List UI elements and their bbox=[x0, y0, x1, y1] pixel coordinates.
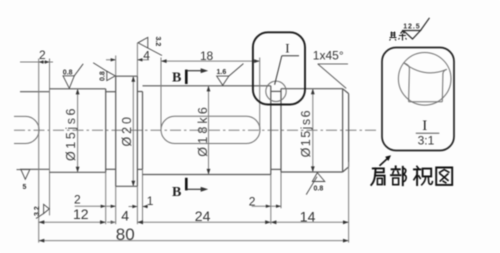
end face extension down bbox=[348, 162, 350, 243]
svg-text:12.5: 12.5 bbox=[403, 23, 420, 30]
flange bottom edge bbox=[116, 185, 138, 187]
svg-text:I: I bbox=[285, 40, 289, 55]
segment 3 bottom edge bbox=[281, 171, 343, 173]
svg-text:B: B bbox=[172, 185, 181, 200]
svg-text:Ø15js6: Ø15js6 bbox=[64, 108, 78, 161]
svg-text:4: 4 bbox=[121, 208, 129, 224]
roughness 0.8 rotated on flange left face bbox=[107, 71, 115, 80]
svg-text:1: 1 bbox=[147, 194, 154, 208]
dimension 2 (groove G4) row1 bbox=[252, 205, 281, 207]
extension below segment 1 right face bbox=[105, 172, 107, 224]
svg-text:80: 80 bbox=[116, 225, 135, 244]
groove G1 left edge + extension bbox=[38, 59, 40, 243]
flange dia20 left face + extensions bbox=[115, 56, 117, 77]
dimension 18 keyway length bbox=[161, 60, 260, 62]
flange right face + extensions bbox=[136, 43, 138, 76]
svg-text:14: 14 bbox=[300, 209, 316, 225]
svg-text:Ø18k6: Ø18k6 bbox=[196, 107, 210, 157]
dia15js6 dimension segment 1 bbox=[77, 89, 79, 173]
shaft left portion top edge bbox=[20, 91, 50, 93]
keyway length extension lines bbox=[160, 58, 162, 131]
segment 1 bottom edge bbox=[50, 171, 106, 173]
detail groove profile bottom line bbox=[409, 101, 443, 103]
roughness 1.6 on segment 2 bbox=[217, 76, 229, 85]
groove G3 bottom edge bbox=[137, 168, 142, 170]
roughness 0.8 on segment 1 bbox=[63, 76, 74, 89]
roughness 0.8 under segment 3 (inverted) bbox=[312, 173, 325, 182]
dimension 80 row3 bbox=[39, 240, 349, 242]
chinese label SHI (view) bbox=[414, 166, 433, 185]
groove G2 top edge bbox=[106, 91, 116, 93]
shaft left portion bottom edge bbox=[20, 168, 50, 170]
svg-text:3.2: 3.2 bbox=[34, 206, 41, 216]
dimension 1 (groove G3) row1 bbox=[129, 206, 138, 208]
svg-text:4: 4 bbox=[143, 49, 150, 63]
flange top edge bbox=[116, 75, 138, 77]
svg-text:5: 5 bbox=[23, 184, 27, 191]
groove G2 bottom edge bbox=[106, 168, 116, 170]
svg-text:24: 24 bbox=[195, 208, 211, 224]
centerline bbox=[14, 129, 378, 131]
keyway slot end arc bbox=[26, 116, 40, 143]
svg-text:0.8: 0.8 bbox=[63, 69, 73, 76]
dia15js6 dimension segment 3 bbox=[312, 89, 314, 172]
svg-text:2: 2 bbox=[39, 48, 46, 62]
shaft end face bbox=[348, 94, 350, 167]
detail groove profile bottom arc bbox=[404, 63, 447, 73]
chamfer top diagonal bbox=[343, 89, 349, 94]
segment 2 right face + extension bbox=[270, 86, 272, 175]
groove G4 bottom edge bbox=[271, 168, 281, 170]
svg-text:2: 2 bbox=[249, 195, 256, 209]
svg-text:0.8: 0.8 bbox=[100, 71, 107, 81]
roughness 5 under left portion (inverted) bbox=[21, 170, 30, 180]
svg-text:B: B bbox=[172, 71, 181, 86]
detail groove profile left wall bbox=[404, 63, 409, 102]
detail boundary rounded rect bbox=[253, 32, 305, 104]
dimension 14 row2 bbox=[271, 221, 349, 223]
chinese label JU (bureau) bbox=[371, 168, 384, 185]
svg-text:3.2: 3.2 bbox=[154, 37, 161, 47]
groove G4 width2 top edge bbox=[271, 90, 281, 92]
chamfer bottom diagonal bbox=[343, 167, 349, 172]
svg-text:1.6: 1.6 bbox=[217, 69, 227, 76]
svg-text:0.8: 0.8 bbox=[314, 186, 324, 193]
groove G3 width1 top edge bbox=[137, 91, 142, 93]
segment 1 dia15js6 top edge bbox=[50, 88, 106, 90]
groove G1 right shoulder face bbox=[49, 59, 51, 216]
keyway slot on segment 2 bbox=[161, 116, 260, 143]
chinese label TU (drawing) bbox=[436, 168, 452, 185]
segment 2 bottom edge bbox=[143, 174, 271, 176]
segment 3 dia15js6 left face + extension bbox=[280, 89, 282, 172]
keyway slot top line bbox=[14, 115, 26, 117]
dia18k6 dimension segment 2 bbox=[208, 86, 210, 175]
detail groove profile right wall bbox=[442, 69, 447, 102]
segment 2 dia18k6 top edge bbox=[143, 85, 271, 87]
svg-text:I: I bbox=[422, 118, 427, 134]
svg-text:Ø15js6: Ø15js6 bbox=[299, 110, 313, 157]
segment 1 right face bbox=[105, 89, 107, 173]
dia20 dimension flange bbox=[132, 76, 134, 186]
svg-text:18: 18 bbox=[200, 49, 213, 63]
svg-text:2: 2 bbox=[74, 192, 81, 206]
svg-text:3:1: 3:1 bbox=[418, 134, 435, 148]
chamfer circle line at shaft end bbox=[342, 89, 344, 172]
dimension 2 top left bbox=[20, 61, 53, 63]
dimension 2 (groove G2) row1 bbox=[75, 205, 116, 207]
detail view circle bbox=[398, 53, 451, 106]
dimension 24 row2 bbox=[137, 221, 270, 223]
keyway slot bottom line bbox=[14, 143, 26, 145]
svg-text:12: 12 bbox=[73, 206, 89, 222]
groove G3 right edge segment2 start + extension bbox=[142, 92, 144, 170]
detail view boundary box bbox=[382, 48, 454, 151]
dimension 12 row2 bbox=[39, 221, 106, 223]
roughness 3.2 rotated on flange right face bbox=[138, 37, 148, 48]
small circle relief groove feature bbox=[266, 81, 286, 101]
dimension 4 top (flange width) bbox=[106, 59, 116, 61]
segment 3 top edge bbox=[281, 88, 343, 90]
svg-text:1x45°: 1x45° bbox=[313, 48, 344, 62]
roughness 3.2 rotated on shoulder face bottom left bbox=[44, 204, 50, 213]
chinese label BU (part) bbox=[391, 166, 406, 185]
chinese tiny text QIYU (rest) bbox=[390, 31, 407, 41]
detail label I leader bbox=[275, 56, 282, 85]
svg-text:Ø20: Ø20 bbox=[120, 117, 134, 147]
dimension 4 row2 bbox=[111, 221, 116, 224]
arrow pointing to detail view bbox=[380, 158, 389, 166]
